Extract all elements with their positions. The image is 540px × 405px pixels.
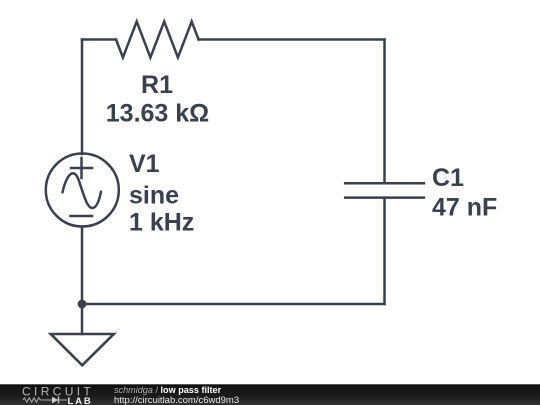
V1 sine glyph [63, 173, 102, 208]
svg-text:R1: R1 [141, 71, 173, 99]
svg-text:1 kHz: 1 kHz [129, 209, 194, 237]
wire left vertical lower [81, 227, 84, 305]
svg-text:schmidga / low pass filter: schmidga / low pass filter [114, 385, 222, 395]
wire bottom horizontal [82, 303, 385, 306]
wire right vertical upper [383, 40, 386, 184]
wire top-right horizontal [199, 38, 385, 41]
logo diode [44, 399, 52, 401]
svg-text:V1: V1 [129, 150, 160, 178]
ground triangle [51, 334, 114, 365]
footer bar [0, 384, 540, 405]
junction node [78, 300, 87, 309]
svg-text:sine: sine [129, 182, 179, 210]
logo resistor squiggle [23, 398, 44, 402]
V1 minus sign [71, 215, 93, 218]
wire ground stub [81, 304, 84, 334]
svg-text:C1: C1 [432, 164, 464, 192]
capacitor C1 bottom plate [345, 196, 424, 199]
wire right vertical lower [383, 198, 386, 304]
V1 plus sign [71, 158, 92, 178]
svg-text:13.63 kΩ: 13.63 kΩ [106, 100, 209, 128]
svg-text:47 nF: 47 nF [432, 194, 497, 222]
wire top-left horizontal [82, 38, 116, 41]
svg-text:http://circuitlab.com/c6wd9m3: http://circuitlab.com/c6wd9m3 [114, 395, 239, 405]
voltage source V1 circle [46, 154, 119, 227]
svg-text:LAB: LAB [68, 396, 93, 405]
resistor R1 [116, 22, 199, 58]
wire left vertical upper [81, 40, 84, 155]
capacitor C1 top plate [345, 182, 424, 185]
